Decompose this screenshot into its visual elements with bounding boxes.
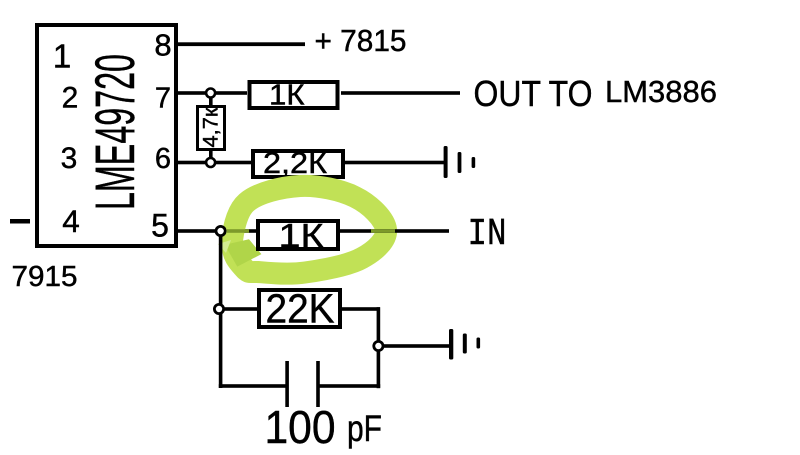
svg-text:1: 1 — [53, 37, 71, 74]
wire R3 to ground — [343, 161, 444, 165]
svg-text:100: 100 — [265, 401, 336, 450]
svg-text:3: 3 — [61, 142, 78, 175]
wire pin5 junction down — [219, 234, 223, 388]
wire R4 to IN — [340, 229, 449, 233]
wire R2 top stub — [209, 96, 213, 107]
wire pin5 to junction — [174, 229, 216, 233]
svg-text:1К: 1К — [279, 217, 325, 254]
svg-text:6: 6 — [155, 143, 171, 175]
wire pin8 to +7815 — [174, 42, 305, 46]
wire pin7 to R1 — [174, 91, 247, 95]
svg-text:LME49720: LME49720 — [83, 54, 146, 210]
wire bottom rail left — [219, 384, 287, 388]
node junction pin7/R2 — [206, 89, 215, 98]
wire junction to R4 — [224, 229, 258, 233]
wire junction to ground G2 — [384, 344, 449, 348]
wire pin6 to R3 — [174, 161, 253, 165]
svg-text:2: 2 — [62, 82, 79, 115]
ground G1 — [444, 146, 476, 178]
wire R2 bottom stub — [209, 149, 213, 160]
wire junction to R5 — [222, 307, 259, 311]
svg-text:1К: 1К — [269, 80, 305, 112]
svg-text:2,2К: 2,2К — [263, 147, 328, 180]
svg-text:5: 5 — [151, 208, 169, 244]
svg-text:LM3886: LM3886 — [605, 74, 717, 109]
node junction pin5 — [216, 226, 225, 235]
svg-text:22K: 22K — [266, 286, 335, 332]
svg-text:IN: IN — [468, 213, 507, 256]
svg-text:pF: pF — [347, 408, 382, 449]
node junction pin6/R2 — [206, 158, 215, 167]
resistor R5 22K body — [259, 290, 340, 327]
wire R1 to output — [341, 91, 460, 95]
resistor R3 2,2K body — [253, 151, 343, 177]
resistor R4 1K body — [258, 221, 338, 249]
svg-text:7915: 7915 — [12, 261, 78, 293]
minus terminal at pin 4 — [10, 219, 30, 224]
svg-text:7: 7 — [155, 83, 171, 115]
wire corner down to ground junction — [377, 307, 381, 388]
olive wire over highlight (right) — [371, 229, 395, 233]
svg-text:OUT TO: OUT TO — [474, 73, 593, 114]
op-amp U1 LME49720 body — [37, 25, 176, 246]
olive wire over highlight (left) — [227, 229, 249, 233]
resistor R2 4,7k body (vertical) — [198, 107, 225, 150]
capacitor C1 left plate — [285, 361, 289, 407]
wire bottom rail right — [319, 384, 381, 388]
highlighter ellipse — [218, 186, 386, 274]
svg-text:8: 8 — [154, 27, 171, 62]
resistor R1 1K body — [250, 82, 338, 108]
capacitor C1 right plate — [316, 361, 320, 407]
node junction R5 left — [214, 304, 223, 313]
node junction ground G2 — [374, 341, 383, 350]
svg-text:+ 7815: + 7815 — [315, 23, 407, 58]
ground G2 — [449, 329, 480, 360]
svg-text:4: 4 — [62, 203, 80, 239]
svg-text:4,7к: 4,7к — [198, 107, 222, 148]
wire R5 right to corner — [341, 307, 380, 311]
